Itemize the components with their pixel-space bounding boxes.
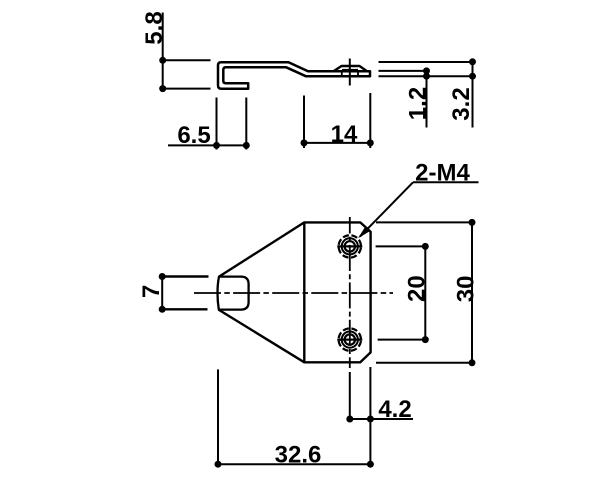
dim 30 dot top [469, 219, 476, 226]
dim 20 dot top [422, 243, 429, 250]
center cross horizontal at boss [342, 69, 358, 71]
dim 32.6 extension left [217, 369, 219, 466]
dim 3.2 dot bottom [469, 73, 476, 80]
dim 5.8 dot bottom [159, 85, 166, 92]
dim 1.2 dot top [423, 67, 430, 74]
dim 7 line [161, 274, 163, 313]
dim 6.5 dot left [213, 142, 220, 149]
dim 14 extension left [303, 96, 305, 149]
side-view profile outline (sheet-metal hook bracket) [218, 62, 370, 88]
dim 30 dot bottom [469, 359, 476, 366]
dim 4.2 extension left (hole center) [349, 372, 351, 422]
center cross vertical at boss [349, 59, 351, 86]
tongue bottom edge [163, 308, 208, 310]
leader 2-M4 diagonal [360, 182, 413, 236]
horizontal center line (dash-dot) [194, 292, 393, 294]
dim 30 extension top [376, 221, 473, 223]
dim 5.8 extension bottom [163, 88, 211, 90]
bottom slope line of wedge [219, 310, 305, 363]
dim 4.2 extension right (body edge) [369, 367, 371, 466]
dim 6.5 extension right [245, 98, 247, 150]
vertical center line through holes (dash-dot) [349, 217, 351, 368]
dim 14 line [304, 142, 370, 144]
dim 32.6 dot left [215, 461, 222, 468]
dim 32.6 line [218, 463, 370, 465]
svg-text:3.2: 3.2 [448, 87, 475, 120]
svg-text:20: 20 [404, 275, 431, 302]
extension line plate bottom surface [379, 75, 474, 77]
bottom hole M4 inner circle [345, 334, 355, 344]
dim 6.5 dot right [243, 142, 250, 149]
leader 2-M4 underline [413, 181, 479, 183]
bottom hole M4 thread dashed circle [339, 328, 361, 350]
tongue rounded cap [218, 277, 249, 310]
bottom hole M4 outer circle [342, 332, 358, 348]
dim 4.2 dot left [346, 416, 353, 423]
dim 6.5 extension left [216, 98, 218, 150]
tongue top edge [163, 275, 209, 277]
dim 5.8 dot top [159, 57, 166, 64]
extension line plate top surface [379, 70, 428, 72]
dim 7 dot top [159, 273, 166, 280]
svg-text:1.2: 1.2 [405, 87, 432, 120]
svg-text:5.8: 5.8 [141, 11, 168, 44]
extension line top level (profile top surface) [379, 61, 474, 63]
dim 32.6 dot right [367, 461, 374, 468]
dim 4.2 line [350, 418, 413, 420]
hole edge tick right (side view) [357, 71, 359, 76]
dim 30 line [471, 222, 473, 362]
dim 14 extension right [369, 93, 371, 148]
dim 1.2 dot bottom [423, 73, 430, 80]
dim 5.8 extension top [163, 59, 211, 61]
dim 30 extension bottom [376, 362, 473, 364]
dim 20 extension top [376, 245, 427, 247]
svg-text:6.5: 6.5 [177, 122, 210, 149]
dim 14 dot right [367, 139, 374, 146]
leader 2-M4 arrowhead [358, 227, 370, 238]
dim 14 dot left [301, 139, 308, 146]
front-view body outline (block with chamfered right corners) [304, 222, 370, 362]
dim 4.2 dot right [367, 416, 374, 423]
dim 7 dot bottom [159, 306, 166, 313]
dim 6.5 line [168, 144, 249, 146]
dim 3.2 dot top [469, 58, 476, 65]
svg-text:2-M4: 2-M4 [415, 160, 470, 187]
svg-text:7: 7 [138, 285, 165, 298]
svg-text:14: 14 [331, 121, 358, 148]
dim 3.2 line [472, 62, 474, 128]
svg-text:30: 30 [453, 276, 480, 303]
top hole M4 outer circle [342, 238, 358, 254]
dim 20 dot bottom [422, 336, 429, 343]
dim 5.8 line [162, 13, 164, 90]
bottom hole crosshair horizontal [337, 339, 362, 341]
dim 20 line [424, 246, 426, 339]
svg-text:4.2: 4.2 [378, 396, 411, 423]
dim 20 extension bottom [378, 339, 427, 341]
dim 1.2 line [426, 71, 428, 128]
top slope line of wedge [219, 222, 304, 276]
top hole M4 inner circle [345, 241, 355, 251]
top hole crosshair horizontal [337, 245, 362, 247]
top hole M4 thread dashed circle [339, 235, 361, 257]
svg-text:32.6: 32.6 [275, 442, 322, 469]
boss (screw boss bump on profile) [334, 66, 368, 71]
hole edge tick left (side view) [341, 71, 343, 76]
